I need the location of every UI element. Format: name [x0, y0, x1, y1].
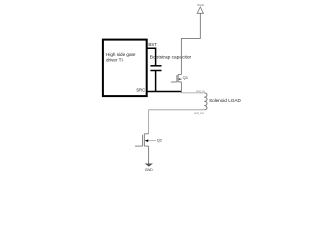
svg-text:GND: GND: [145, 168, 153, 172]
ground: [145, 164, 153, 167]
wire node coil_in (SRC node to solenoid): [181, 92, 204, 94]
svg-text:driver TI: driver TI: [106, 58, 123, 63]
label U1: High side gate driver TI: [106, 52, 136, 62]
wire capacitor to SRC net: [155, 71, 157, 92]
inductor L1 Solenoid LOAD: [204, 93, 207, 110]
svg-text:BST: BST: [148, 42, 157, 47]
wire BST pin to bootstrap capacitor: [147, 48, 156, 65]
svg-text:5volt: 5volt: [197, 3, 204, 7]
svg-text:Solenoid LOAD: Solenoid LOAD: [209, 98, 241, 103]
svg-text:coil_ret: coil_ret: [194, 111, 204, 115]
svg-text:Q2: Q2: [157, 138, 163, 143]
capacitor C1 (bootstrap): [150, 66, 161, 71]
svg-text:Bootstrap capacitor: Bootstrap capacitor: [150, 54, 192, 60]
wire SRC pin to Q3 source node: [147, 91, 182, 93]
transistor Q2: [135, 134, 156, 164]
svg-text:High side gate: High side gate: [106, 52, 136, 57]
wire power rail to Q3 drain: [181, 13, 200, 74]
power symbol 5volts: [197, 7, 203, 13]
svg-text:Q3: Q3: [183, 76, 188, 80]
gate driver U1 (High side gate driver TI): [103, 40, 147, 97]
svg-text:SRC: SRC: [136, 88, 145, 93]
transistor Q3: [171, 74, 182, 93]
wire node coil_ret (solenoid to Q2 drain): [149, 110, 205, 134]
svg-text:coil_in: coil_in: [196, 89, 205, 93]
